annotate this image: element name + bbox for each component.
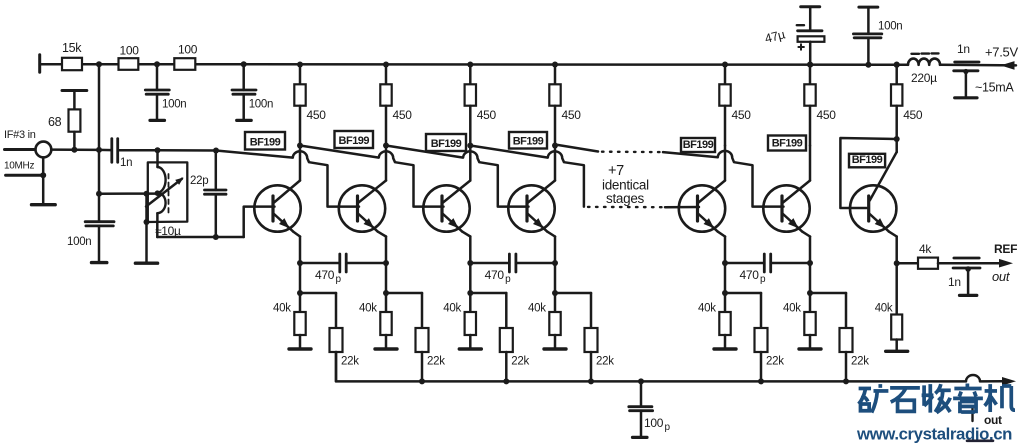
wire omitted-stages dotted base line (588, 206, 665, 209)
svg-text:BF199: BF199 (431, 138, 462, 150)
resistor 22k stage 6 (810, 293, 853, 381)
capacitor 1n supply feedthrough (954, 62, 979, 98)
wire emitter stage 3 (462, 232, 470, 263)
resistor 22k stage 1 (300, 293, 343, 381)
resistor 100 (second) (174, 58, 195, 70)
node output stage 7 (894, 260, 900, 266)
svg-text:470: 470 (485, 268, 505, 282)
label 22k stage 6 (851, 356, 869, 368)
transistor Q6 BF199 circle (763, 185, 809, 231)
input shield wire (42, 157, 45, 204)
svg-text:100n: 100n (249, 99, 273, 111)
wire AGC bus (336, 352, 1002, 381)
wire collector stage 3 (443, 146, 470, 203)
label 15k (62, 41, 82, 55)
ground 40k stage 5 (714, 347, 736, 350)
node tank-tap (155, 190, 161, 196)
node rail stage 6 (807, 62, 813, 68)
label 100p (644, 416, 671, 433)
wire collector stage 7 (870, 139, 897, 201)
wire emitter stage 5 (718, 232, 725, 263)
label ≈10µ (155, 224, 181, 238)
node tank-bottom-ext (144, 219, 150, 225)
svg-text:100: 100 (178, 43, 198, 57)
transistor Q7 BF199 circle (850, 185, 896, 231)
svg-text:p: p (505, 274, 511, 285)
ground 40k stage 1 (289, 347, 311, 350)
node emitter stage 6 (807, 260, 813, 266)
transistor Q7 emitter (870, 214, 889, 232)
transistor Q6 base bar (780, 196, 783, 221)
node collector takeoff stage 2 (383, 143, 389, 149)
svg-text:40k: 40k (443, 303, 461, 315)
label out bottom (984, 413, 1002, 427)
svg-text:~15mA: ~15mA (975, 81, 1014, 95)
wire emitter to divider stage 5 (724, 263, 727, 293)
ground 40k stage 2 (375, 347, 397, 350)
label ~15mA (975, 81, 1014, 95)
node 68-junction (71, 147, 77, 153)
wire collector stage 4 (528, 146, 555, 203)
svg-text:4k: 4k (919, 242, 932, 256)
ground input (32, 203, 56, 206)
wire Q5 base feed (665, 206, 699, 209)
svg-text:22p: 22p (190, 175, 208, 187)
node divider stage 3 (467, 290, 473, 296)
wire input line (51, 148, 216, 151)
svg-text:BF199: BF199 (339, 135, 370, 147)
svg-text:100n: 100n (878, 21, 902, 33)
transistor Q5 BF199 circle (679, 185, 725, 231)
label 450 stage 4 (562, 108, 582, 122)
tank core dashed (168, 174, 170, 213)
resistor 22k stage 5 (725, 293, 768, 381)
resistor 450 stage 4 (549, 65, 560, 146)
wire Q3 collector coupling (hops stage4 wire, to omitted stages) (470, 146, 584, 207)
input terminal circle (36, 142, 52, 158)
svg-text:22k: 22k (851, 356, 869, 368)
ground 40k stage 4 (544, 347, 566, 350)
node input-99 (96, 147, 102, 153)
wire coupling into Q6 base (hops stage5 wire) (663, 151, 784, 207)
node bus 22k 2 (503, 378, 509, 384)
wire output arrow line (999, 262, 1000, 265)
resistor 22k stage 3 (470, 293, 513, 381)
node rail-99 (96, 61, 102, 67)
svg-text:p: p (665, 422, 671, 433)
label +7 identical stages (602, 163, 649, 206)
svg-text:470: 470 (315, 268, 335, 282)
node bus 22k 4 (758, 378, 764, 384)
wire Q4 collector coupling upper (to omitted stages) (555, 145, 598, 152)
label 450 stage 5 (732, 108, 752, 122)
label REF (994, 242, 1017, 256)
label out (992, 269, 1011, 284)
svg-text:BF199: BF199 (852, 154, 883, 166)
label 40k stage 7 (875, 303, 893, 315)
node Q7 collector-box (894, 136, 900, 142)
resistor 40k stage 1 (294, 293, 305, 349)
node emitter stage 5 (722, 260, 728, 266)
resistor 40k stage 5 (719, 293, 730, 349)
label 100n input bypass (67, 236, 91, 248)
svg-text:40k: 40k (698, 303, 716, 315)
capacitor 100n decoupling 1 (145, 64, 169, 120)
svg-text:BF199: BF199 (683, 139, 714, 151)
label BF199 stage 7 (849, 154, 885, 168)
inductor tank coil (157, 167, 165, 222)
wire omitted-stages dotted coupling line (602, 150, 663, 153)
wire emitter to divider stage 4 (554, 263, 557, 293)
Q7 feedback box (840, 138, 896, 208)
svg-text:450: 450 (477, 108, 497, 122)
wire Q1 collector coupling to Q3 base (hops stage2 wire) (300, 146, 444, 207)
ground tank (135, 262, 157, 265)
node divider stage 1 (297, 290, 303, 296)
node bus 22k 3 (588, 378, 594, 384)
node emitter stage 2 (383, 260, 389, 266)
ground 40k stage 6 (799, 347, 821, 350)
svg-text:40k: 40k (875, 303, 893, 315)
label 22p (190, 175, 208, 187)
node bus 100p (638, 378, 644, 384)
wire emitter stage 1 (293, 232, 300, 263)
supply arrow (1001, 61, 1015, 70)
svg-text:450: 450 (307, 108, 327, 122)
node 22p-top (213, 148, 219, 154)
node collector takeoff stage 4 (552, 143, 558, 149)
transistor Q6 emitter (783, 214, 802, 232)
label 470p 5-6 (740, 268, 767, 285)
capacitor 100p (629, 381, 653, 437)
node rail stage 2 (383, 62, 389, 68)
label 22k stage 2 (427, 356, 445, 368)
wire emitter to divider stage 1 (299, 263, 302, 293)
svg-text:10MHz: 10MHz (4, 161, 34, 172)
transistor Q3 emitter (443, 214, 462, 232)
label 10MHz (4, 161, 34, 172)
label 1n input (120, 157, 132, 169)
capacitor 100n decoupling 2 (232, 64, 256, 120)
node rail stage 1 (297, 62, 303, 68)
bus arrow (1002, 377, 1016, 386)
label 22k stage 3 (511, 356, 529, 368)
label 100n supply (878, 21, 902, 33)
transistor Q1 base bar (271, 196, 274, 221)
transistor Q5 base bar (696, 196, 699, 221)
node rail-244 (241, 61, 247, 67)
capacitor 100n supply (853, 7, 881, 65)
node emitter stage 1 (297, 260, 303, 266)
resistor 4k (897, 258, 999, 269)
node rail stage 4 (552, 62, 558, 68)
svg-text:15k: 15k (62, 41, 82, 55)
wire collector stage 5 (699, 146, 726, 203)
label 1n output (948, 275, 961, 289)
label 450 stage 6 (817, 108, 837, 122)
node emitter stage 3 (467, 260, 473, 266)
node rail-157 (154, 61, 160, 67)
wire tank bottom stub (156, 222, 159, 237)
input lead (5, 148, 36, 151)
svg-text:stages: stages (606, 191, 645, 206)
resistor 100 (first) (119, 58, 139, 70)
wire collector stage 1 (274, 146, 300, 203)
capacitor 1n output feedthrough (953, 258, 980, 295)
resistor 22k stage 4 (555, 293, 598, 381)
svg-text:REF: REF (994, 242, 1017, 256)
label 100 (first) (120, 44, 140, 58)
label BF199 stage 3 (426, 134, 466, 151)
watermark url (856, 425, 1012, 444)
resistor 40k stage 4 (549, 293, 560, 349)
capacitor 100n input bypass (85, 222, 114, 263)
node collector takeoff stage 1 (297, 143, 303, 149)
node divider stage 6 (807, 290, 813, 296)
transistor Q3 BF199 circle (423, 185, 469, 231)
node rail-810 (807, 62, 813, 68)
resistor 450 stage 1 (294, 65, 305, 146)
svg-text:40k: 40k (528, 303, 546, 315)
node emitter stage 4 (552, 260, 558, 266)
wire tank top stub (156, 150, 159, 167)
transistor Q7 base bar (867, 196, 870, 221)
node rail-868 (865, 62, 871, 68)
svg-text:22k: 22k (596, 356, 614, 368)
label 40k stage 6 (783, 303, 801, 315)
node divider stage 5 (722, 290, 728, 296)
label 22k stage 1 (341, 356, 359, 368)
svg-text:450: 450 (817, 108, 837, 122)
svg-text:p: p (336, 274, 342, 285)
node rail-897 (894, 62, 900, 68)
label IF#3 in (4, 129, 36, 141)
svg-text:100n: 100n (67, 236, 91, 248)
svg-text:p: p (760, 274, 766, 285)
node collector takeoff stage 3 (467, 143, 473, 149)
svg-text:BF199: BF199 (250, 136, 281, 148)
resistor 68 (69, 91, 81, 150)
transistor Q4 BF199 circle (508, 185, 554, 231)
resistor 40k stage 6 (804, 293, 815, 349)
svg-text:1n: 1n (948, 275, 961, 289)
transistor Q1 BF199 circle (254, 185, 300, 231)
output arrow (999, 259, 1013, 268)
node bus 22k 5 (843, 378, 849, 384)
label 450 stage 7 (903, 108, 923, 122)
node divider stage 2 (383, 290, 389, 296)
label BF199 stage 1 (245, 132, 285, 150)
capacitor 470p between stage 5 and 6 (725, 254, 810, 272)
input shield lead (6, 174, 44, 177)
resistor 15k (62, 58, 82, 70)
ground 40k stage 7 (886, 350, 908, 353)
svg-text:100n: 100n (162, 99, 186, 111)
svg-text:470: 470 (740, 268, 760, 282)
transistor Q4 emitter (528, 214, 547, 232)
resistor 450 stage 7 (891, 65, 902, 140)
svg-text:40k: 40k (273, 303, 291, 315)
svg-text:450: 450 (903, 108, 923, 122)
resistor 22k stage 2 (386, 293, 429, 381)
svg-text:100: 100 (120, 44, 140, 58)
label BF199 stage 6 (768, 136, 806, 151)
svg-text:22k: 22k (766, 356, 784, 368)
resistor 40k stage 3 (465, 293, 476, 349)
inductor 220µ choke (908, 53, 940, 64)
svg-text:22k: 22k (341, 356, 359, 368)
label 40k stage 3 (443, 303, 461, 315)
resistor 68 top bar (62, 89, 87, 92)
node bias-194 (96, 191, 102, 197)
transistor Q2 emitter (359, 214, 378, 232)
wire emitter to divider stage 2 (385, 263, 388, 293)
svg-text:450: 450 (562, 108, 582, 122)
svg-text:100: 100 (644, 416, 664, 430)
label 470p 1-2 (315, 268, 342, 285)
tank shield box (147, 162, 188, 222)
transistor Q4 base bar (525, 196, 528, 221)
label BF199 stage 5 (681, 138, 715, 152)
capacitor 1n series input (112, 139, 118, 163)
label 1n supply (957, 42, 970, 56)
transistor Q5 emitter (699, 214, 718, 232)
transistor Q1 emitter (274, 214, 293, 232)
svg-text:220µ: 220µ (911, 71, 937, 85)
svg-text:1n: 1n (120, 157, 132, 169)
node tank-tap-gnd (144, 191, 150, 197)
svg-text:+7.5V: +7.5V (985, 45, 1018, 60)
node input shield (40, 172, 46, 178)
label 22k stage 5 (766, 356, 784, 368)
svg-text:BF199: BF199 (513, 135, 544, 147)
svg-text:68: 68 (48, 115, 62, 129)
label 68 (48, 115, 62, 129)
wire tank ground leg (145, 194, 148, 263)
resistor 40k stage 7 (891, 263, 902, 351)
svg-text:IF#3 in: IF#3 in (4, 129, 36, 141)
wire emitter stage 4 (547, 232, 555, 263)
node divider stage 4 (552, 290, 558, 296)
watermark underline (967, 439, 993, 442)
resistor 450 stage 3 (465, 65, 476, 146)
label 100n decoupling 2 (249, 99, 273, 111)
svg-text:BF199: BF199 (772, 137, 803, 149)
resistor 450 stage 5 (719, 65, 730, 146)
ground 40k stage 3 (459, 347, 481, 350)
tank tuning arrow (146, 178, 184, 207)
resistor 450 stage 2 (380, 65, 391, 146)
wire emitter stage 6 (802, 232, 810, 263)
svg-text:22k: 22k (427, 356, 445, 368)
wire emitter to divider stage 3 (469, 263, 472, 293)
capacitor 47µ electrolytic (797, 7, 825, 65)
svg-text:450: 450 (732, 108, 752, 122)
svg-text:22k: 22k (511, 356, 529, 368)
label +7.5V (985, 45, 1018, 60)
wire collector stage 2 (359, 146, 387, 203)
transistor Q2 base bar (356, 196, 359, 221)
label 450 stage 1 (307, 108, 327, 122)
wire emitter to divider stage 6 (809, 263, 812, 293)
resistor 40k stage 2 (380, 293, 391, 349)
svg-text:40k: 40k (783, 303, 801, 315)
wire: top supply rail (40, 64, 1016, 65)
node tank-top (155, 147, 161, 153)
wire input coupling to Q2 base (hops stage1 wire) (216, 151, 359, 207)
capacitor 470p between stage 3 and 4 (470, 254, 555, 272)
label 450 stage 3 (477, 108, 497, 122)
label 47µ (763, 27, 786, 45)
wire tank tap branch (99, 192, 157, 195)
label 4k (919, 242, 932, 256)
node 22p-bottom (213, 234, 219, 240)
svg-text:450: 450 (393, 108, 413, 122)
label 220µ (911, 71, 937, 85)
node rail stage 7 (894, 62, 900, 68)
label 40k stage 5 (698, 303, 716, 315)
capacitor 470p between stage 1 and 2 (300, 254, 386, 272)
wire emitter stage 7 (889, 232, 897, 264)
label 470p 3-4 (485, 268, 512, 285)
svg-text:40k: 40k (359, 303, 377, 315)
svg-text:out: out (992, 269, 1011, 284)
node bus 22k 1 (419, 378, 425, 384)
label 40k stage 2 (359, 303, 377, 315)
label 100 (second) (178, 43, 198, 57)
watermark 矿石收音机 (859, 384, 1015, 414)
label 22k stage 4 (596, 356, 614, 368)
svg-text:47µ: 47µ (763, 27, 786, 45)
wire bias vertical x99 (98, 64, 101, 222)
wire: +7.5V supply rail start tick (38, 55, 41, 72)
label 100n decoupling 1 (162, 99, 186, 111)
label BF199 stage 2 (335, 131, 374, 148)
wire collector stage 6 (783, 146, 810, 203)
wire bus out stub (971, 408, 973, 421)
wire Q2 collector coupling to Q4 base (hops stage3 wire) (386, 146, 529, 207)
wire T1 base feed (244, 207, 275, 237)
resistor 450 stage 6 (804, 65, 815, 146)
transistor Q3 base bar (440, 196, 443, 221)
label 40k stage 4 (528, 303, 546, 315)
node rail stage 5 (722, 62, 728, 68)
label 40k stage 1 (273, 303, 291, 315)
transistor Q2 BF199 circle (339, 185, 385, 231)
capacitor 22p (205, 151, 227, 238)
label 450 stage 2 (393, 108, 413, 122)
wire base line y237 (157, 236, 243, 239)
label BF199 stage 4 (509, 132, 547, 149)
node rail stage 3 (467, 62, 473, 68)
svg-text:1n: 1n (957, 42, 970, 56)
wire emitter stage 2 (378, 232, 386, 263)
